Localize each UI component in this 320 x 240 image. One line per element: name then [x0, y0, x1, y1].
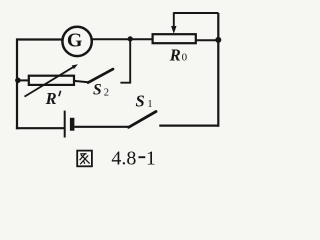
- wire S2 vertical: [120, 39, 130, 83]
- resistor R0: [153, 34, 196, 43]
- svg-text:R: R: [169, 46, 181, 65]
- wire top-left horizontal: [17, 38, 62, 40]
- label S1: [136, 91, 153, 110]
- label S2: [93, 82, 109, 99]
- switch S1: [129, 112, 156, 128]
- caption number 4.8-1: [111, 148, 155, 170]
- svg-text:R: R: [45, 89, 57, 108]
- svg-text:1: 1: [147, 99, 152, 110]
- label R': [45, 89, 61, 108]
- junction left: [15, 78, 21, 84]
- junction S2 top: [128, 36, 133, 41]
- wiper arrow of R0: [171, 12, 176, 34]
- wire G to R0: [92, 38, 152, 40]
- resistor R': [29, 76, 74, 85]
- wire R' to S2: [74, 81, 88, 82]
- label R0: [169, 46, 188, 65]
- battery: [65, 111, 75, 138]
- svg-text:1: 1: [146, 148, 156, 170]
- galvanometer G: [62, 27, 91, 56]
- svg-text:S: S: [136, 91, 145, 110]
- wire left vertical: [16, 38, 18, 129]
- wire R0 right terminal: [196, 39, 219, 41]
- wire battery to S1: [74, 126, 129, 128]
- caption character tu (figure): [77, 151, 92, 167]
- switch S2: [88, 69, 113, 83]
- svg-text:S: S: [93, 82, 102, 99]
- svg-text:2: 2: [104, 87, 109, 98]
- wire bottom-left to battery: [16, 127, 65, 129]
- svg-text:G: G: [67, 30, 83, 52]
- svg-text:0: 0: [182, 52, 188, 64]
- junction right: [215, 37, 221, 43]
- wire wiper top loop: [174, 12, 219, 14]
- svg-text:4.8: 4.8: [111, 148, 136, 170]
- arrow through R': [25, 64, 78, 96]
- wire right vertical: [217, 13, 219, 127]
- wire S1 right contact to bottom-right corner: [159, 124, 218, 126]
- wire left junction to R': [17, 79, 29, 81]
